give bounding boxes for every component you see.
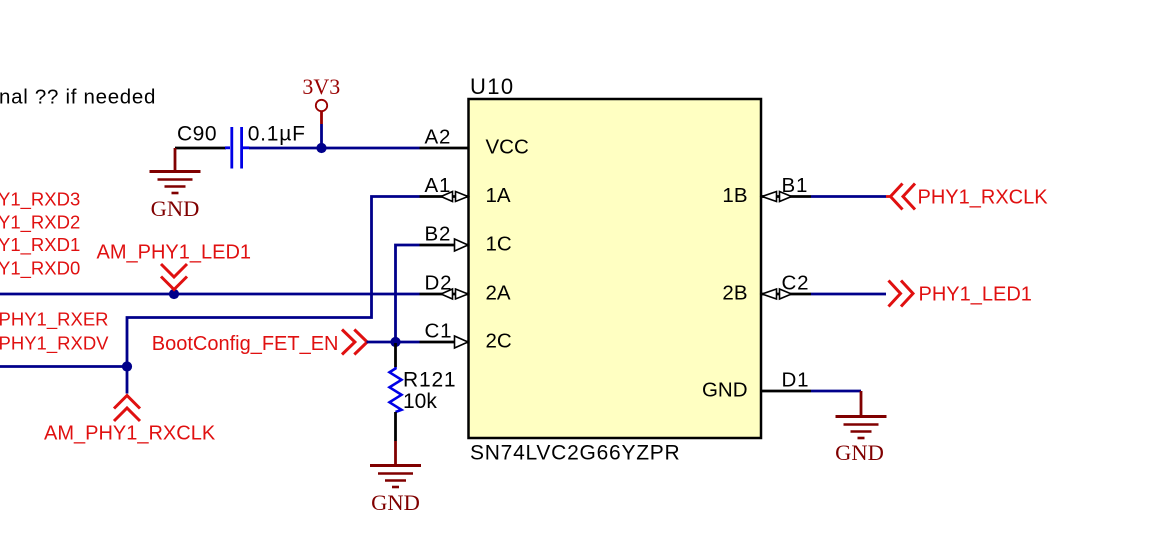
pin D2 bidirectional arrows [441, 289, 468, 299]
svg-text:Y1_RXD0: Y1_RXD0 [0, 258, 80, 280]
capacitor C90 left pin [175, 147, 226, 150]
svg-text:Y1_RXD3: Y1_RXD3 [0, 189, 80, 211]
svg-text:0.1µF: 0.1µF [248, 123, 306, 146]
svg-text:1C: 1C [486, 233, 512, 256]
pin A1 bidirectional arrows [441, 192, 468, 202]
pin D1 lead [761, 390, 811, 393]
junction VCC net [316, 143, 326, 153]
svg-text:Y1_RXD1: Y1_RXD1 [0, 234, 80, 256]
pin C2 lead [761, 293, 811, 296]
svg-text:SN74LVC2G66YZPR: SN74LVC2G66YZPR [470, 442, 680, 465]
svg-text:A2: A2 [425, 126, 452, 149]
wire stub to AM_PHY1_RXCLK port [126, 367, 129, 394]
svg-text:B2: B2 [425, 223, 452, 246]
svg-text:C1: C1 [425, 320, 453, 343]
wire to pin B2 [396, 245, 420, 342]
svg-text:PHY1_LED1: PHY1_LED1 [919, 284, 1032, 306]
pin B1 bidirectional arrows [762, 192, 792, 202]
wire pin C2 to PHY1_LED1 port [811, 293, 886, 296]
svg-text:1B: 1B [722, 184, 747, 207]
ground stem below C90 [174, 148, 177, 172]
svg-text:VCC: VCC [486, 136, 529, 159]
ground symbol below C90 [150, 172, 201, 194]
svg-text:AM_PHY1_RXCLK: AM_PHY1_RXCLK [44, 423, 216, 445]
svg-text:1A: 1A [486, 184, 511, 207]
svg-text:PHY1_RXER: PHY1_RXER [0, 309, 109, 331]
svg-text:C90: C90 [177, 123, 217, 146]
resistor R121 bottom lead [394, 412, 397, 441]
wire pin D1 to ground [811, 390, 861, 393]
svg-text:3V3: 3V3 [302, 74, 340, 99]
ground stem at D1 [860, 391, 863, 417]
pin B2 lead [420, 244, 469, 247]
svg-text:D1: D1 [782, 369, 810, 392]
port BootConfig_FET_EN chevron [342, 330, 367, 355]
svg-text:PHY1_RXCLK: PHY1_RXCLK [918, 187, 1049, 209]
ground symbol below R121 [370, 466, 421, 488]
wire BootConfig_FET_EN to pin C1 [367, 341, 420, 344]
wire PHY1_RXER RXDV net to pin A1 [0, 197, 420, 367]
pin A2 lead [420, 147, 469, 150]
pin B2 input arrow [455, 239, 469, 251]
power symbol 3V3 circle [316, 100, 327, 111]
pin C1 lead [420, 341, 469, 344]
svg-text:AM_PHY1_LED1: AM_PHY1_LED1 [97, 242, 252, 264]
wire pin B1 to PHY1_RXCLK port [811, 195, 886, 198]
wire AM_PHY1_LED1 to pin D2 [0, 293, 420, 296]
svg-text:R121: R121 [403, 369, 456, 392]
svg-text:nal ?? if needed: nal ?? if needed [0, 86, 156, 109]
svg-text:10k: 10k [403, 390, 437, 413]
pin B1 lead [761, 195, 811, 198]
junction R121 net [390, 337, 400, 347]
svg-text:2B: 2B [722, 282, 747, 305]
svg-text:GND: GND [702, 379, 748, 402]
wire 3V3 to VCC net [320, 124, 323, 148]
svg-text:2A: 2A [486, 282, 511, 305]
svg-text:PHY1_RXDV: PHY1_RXDV [0, 333, 109, 355]
port PHY1_RXCLK chevron [886, 184, 915, 210]
wire C90 to VCC pin A2 [249, 147, 420, 150]
power symbol 3V3 stem [320, 111, 323, 124]
pin D2 lead [420, 293, 469, 296]
junction AM_PHY1_LED1 [169, 289, 179, 299]
capacitor C90 plates [225, 127, 249, 169]
svg-text:GND: GND [151, 196, 200, 221]
svg-text:Y1_RXD2: Y1_RXD2 [0, 212, 80, 234]
port PHY1_LED1 chevron [889, 281, 914, 307]
svg-text:2C: 2C [486, 330, 512, 353]
resistor R121 zigzag [390, 367, 402, 412]
junction AM_PHY1_RXCLK [122, 361, 132, 371]
svg-text:U10: U10 [470, 74, 515, 99]
pin C1 input arrow [455, 336, 469, 348]
svg-text:GND: GND [835, 440, 884, 465]
port AM_PHY1_LED1 chevron [161, 264, 187, 290]
pin A1 lead [420, 195, 469, 198]
ground symbol at D1 [836, 417, 887, 439]
resistor R121 top lead [394, 343, 397, 367]
svg-text:GND: GND [371, 490, 420, 515]
IC U10 body [469, 99, 762, 438]
ground stem below R121 [394, 441, 397, 466]
svg-text:BootConfig_FET_EN: BootConfig_FET_EN [152, 333, 339, 355]
pin C2 bidirectional arrows [762, 289, 792, 299]
port AM_PHY1_RXCLK chevron [114, 396, 140, 422]
